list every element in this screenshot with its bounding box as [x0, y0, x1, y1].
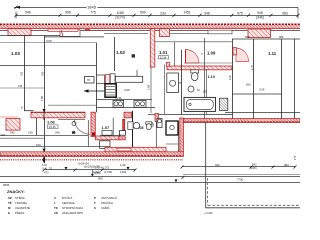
svg-text:CHODIŠTĚ: CHODIŠTĚ [15, 205, 30, 210]
svg-text:305: 305 [203, 91, 208, 94]
svg-text:TĚ: TĚ [8, 200, 12, 205]
svg-text:P: P [94, 196, 96, 200]
svg-text:STĚNA: STĚNA [15, 195, 25, 200]
svg-text:146: 146 [18, 85, 23, 88]
svg-text:1.09: 1.09 [207, 51, 216, 56]
svg-text:STROPNÍ KRAJ: STROPNÍ KRAJ [62, 206, 84, 210]
svg-text:E: E [8, 211, 10, 215]
svg-text:(1745): (1745) [104, 170, 112, 174]
svg-text:2806: 2806 [3, 183, 10, 187]
svg-text:1.11: 1.11 [268, 51, 277, 56]
svg-text:1451: 1451 [183, 11, 191, 15]
svg-text:983: 983 [279, 35, 284, 39]
svg-text:175: 175 [294, 155, 297, 160]
svg-text:750: 750 [42, 71, 45, 76]
svg-text:VAŘIČ: VAŘIČ [101, 205, 110, 210]
svg-text:240: 240 [10, 130, 15, 134]
svg-text:1463: 1463 [120, 170, 127, 174]
svg-text:975: 975 [237, 11, 243, 15]
svg-text:775: 775 [90, 11, 96, 15]
svg-text:3,06: 3,06 [259, 88, 265, 92]
svg-text:590: 590 [245, 35, 250, 39]
svg-text:1,90: 1,90 [120, 163, 126, 167]
svg-text:1.07: 1.07 [102, 125, 111, 130]
svg-text:15,30: 15,30 [49, 125, 56, 129]
svg-text:1,98: 1,98 [147, 84, 151, 90]
svg-text:7750: 7750 [237, 178, 244, 182]
svg-text:1.02: 1.02 [116, 50, 125, 55]
svg-text:(1170): (1170) [115, 15, 125, 19]
svg-text:1.01: 1.01 [159, 50, 168, 55]
svg-text:233: 233 [160, 11, 166, 15]
svg-text:983: 983 [282, 11, 288, 15]
svg-text:472: 472 [44, 171, 49, 175]
svg-text:348: 348 [204, 11, 210, 15]
svg-text:TROUBA: TROUBA [15, 201, 27, 205]
svg-text:F: F [94, 201, 96, 205]
svg-text:V: V [54, 196, 56, 200]
svg-text:70.56: 70.56 [115, 96, 122, 100]
svg-text:960: 960 [98, 177, 103, 181]
svg-text:3,05: 3,05 [124, 88, 130, 92]
svg-text:1165: 1165 [116, 11, 123, 15]
svg-text:546: 546 [25, 11, 31, 15]
svg-text:MYČKA: MYČKA [62, 195, 72, 200]
svg-text:m: m [87, 78, 90, 82]
svg-text:1.03: 1.03 [11, 51, 20, 56]
svg-text:102: 102 [1, 133, 6, 137]
svg-text:1.06: 1.06 [47, 120, 56, 125]
svg-text:750: 750 [21, 71, 24, 76]
svg-text:590: 590 [140, 11, 146, 15]
svg-text:+-0,000: +-0,000 [204, 212, 213, 215]
svg-text:1,98: 1,98 [41, 96, 44, 101]
svg-text:946: 946 [257, 11, 263, 15]
svg-text:(346): (346) [94, 171, 101, 175]
svg-text:UMYVADLO: UMYVADLO [101, 196, 118, 200]
svg-text:169: 169 [36, 143, 41, 147]
svg-text:155: 155 [28, 130, 33, 134]
svg-text:1,75: 1,75 [251, 65, 254, 70]
svg-text:596: 596 [65, 11, 71, 15]
svg-text:246: 246 [55, 130, 60, 134]
svg-text:LEDNICE: LEDNICE [62, 201, 75, 205]
svg-text:1845: 1845 [87, 5, 97, 10]
svg-text:S: S [94, 206, 96, 210]
svg-text:1.10: 1.10 [208, 75, 215, 79]
svg-text:12,34: 12,34 [160, 55, 167, 59]
svg-text:ZD: ZD [54, 211, 58, 215]
svg-text:(346): (346) [256, 15, 264, 19]
svg-text:ZÁKLADNÍ DPS: ZÁKLADNÍ DPS [62, 211, 83, 215]
svg-text:2,00: 2,00 [229, 75, 232, 80]
svg-text:200: 200 [246, 83, 251, 87]
svg-text:L: L [54, 201, 56, 205]
svg-text:SP: SP [8, 196, 12, 200]
svg-text:ZNAČKY:: ZNAČKY: [7, 189, 25, 194]
svg-text:PRAČKA: PRAČKA [101, 200, 113, 205]
svg-text:PŘEKL: PŘEKL [15, 210, 25, 215]
